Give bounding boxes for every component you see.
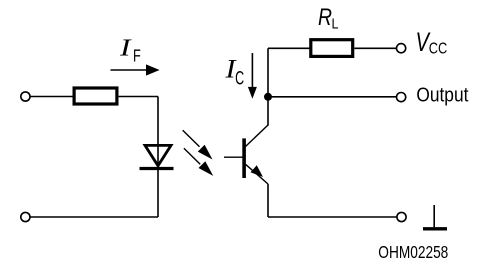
input terminal T2 — [21, 212, 30, 221]
emitter arrowhead — [251, 165, 264, 177]
svg-text:OHM02258: OHM02258 — [378, 242, 448, 262]
svg-text:CC: CC — [429, 41, 448, 58]
wire (node to output terminal) — [268, 96, 397, 98]
terminal VCC — [397, 44, 406, 53]
svg-text:Output: Output — [416, 84, 468, 107]
wire (emitter down) — [267, 184, 269, 217]
node (collector junction) — [264, 93, 272, 101]
label IF — [119, 36, 141, 66]
svg-text:F: F — [133, 46, 141, 66]
wire — [30, 216, 158, 218]
svg-text:C: C — [235, 68, 244, 89]
wire (bottom to output side terminal) — [268, 216, 397, 218]
svg-text:R: R — [318, 4, 332, 31]
label VCC — [416, 27, 448, 57]
light arrow 2 — [184, 148, 213, 176]
wire — [354, 47, 397, 49]
wire — [30, 96, 73, 98]
light arrow 1 — [183, 130, 213, 159]
emitter diagonal — [246, 164, 269, 184]
current arrow IF — [111, 64, 160, 75]
base lead — [224, 156, 243, 158]
label RL — [318, 4, 339, 32]
terminal Output — [397, 93, 406, 102]
current arrow IC — [248, 53, 257, 99]
wire — [157, 97, 159, 218]
resistor RL — [311, 40, 353, 57]
input terminal T1 — [21, 92, 30, 101]
svg-text:L: L — [332, 15, 339, 32]
wire — [119, 96, 158, 98]
wire (top horizontal to RL) — [268, 47, 310, 49]
wire (collector up to node and corner) — [267, 48, 269, 125]
ground — [423, 205, 447, 229]
phototransistor Q1 — [224, 125, 268, 184]
base bar — [242, 138, 246, 178]
terminal (emitter out) — [397, 212, 406, 221]
svg-text:I: I — [119, 36, 132, 62]
collector diagonal — [246, 125, 269, 147]
LED D1 — [140, 145, 174, 168]
resistor R1 (input series) — [74, 88, 117, 104]
label IC — [224, 55, 244, 90]
